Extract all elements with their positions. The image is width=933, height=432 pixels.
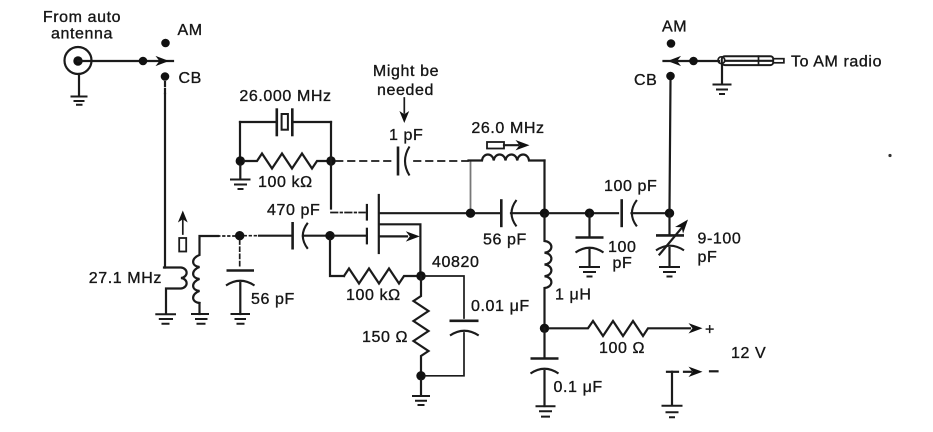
switch S2 wiper arrow (668, 56, 682, 66)
svg-text:150 Ω: 150 Ω (362, 329, 408, 346)
label From auto antenna (43, 9, 121, 43)
svg-text:100: 100 (608, 239, 637, 256)
node crystal/R1 left junction (236, 156, 245, 165)
ground under T1 secondary (191, 314, 209, 324)
svg-text:pF: pF (613, 255, 633, 272)
connector P1 phone plug to AM radio (722, 56, 774, 65)
switch S1 wiper arrow (156, 56, 170, 66)
capacitor 0.1 uF supply bypass (543, 328, 545, 356)
svg-text:AM: AM (178, 22, 203, 39)
T1 tuning slug arrow (182, 220, 184, 234)
svg-text:40820: 40820 (432, 254, 480, 271)
ground under crystal junction (239, 165, 241, 179)
node CB right contact (666, 72, 675, 81)
ground under T1 primary (155, 314, 176, 324)
Q1 gate1 bar (366, 205, 368, 220)
capacitor 100 pF series (620, 199, 623, 227)
ground under plug (721, 65, 723, 84)
wire dashed 1 pF to L1 node (414, 160, 468, 162)
stray dot (888, 154, 891, 157)
Q1 source lead (380, 224, 420, 273)
svg-text:Might be: Might be (373, 63, 439, 80)
svg-text:CB: CB (179, 70, 202, 87)
minus supply terminal (667, 371, 678, 373)
svg-text:0.01 μF: 0.01 μF (471, 298, 530, 315)
svg-text:100 Ω: 100 Ω (599, 340, 645, 357)
svg-text:12 V: 12 V (731, 345, 766, 362)
Q1 substrate lead with arrow (380, 235, 407, 237)
svg-text:470 pF: 470 pF (267, 202, 320, 219)
wire dash-dot to gate1 (331, 212, 365, 214)
arrow down to 1 pF (403, 98, 405, 113)
svg-text:100 pF: 100 pF (604, 178, 657, 195)
resistor R2 100 kOhm bias (344, 269, 417, 284)
capacitor 56 pF input shunt (239, 240, 241, 266)
wire T1 secondary bottom to ground (198, 303, 200, 314)
node gate2 junction (325, 231, 334, 240)
wire output node up to CB right (670, 80, 671, 209)
variable capacitor 9-100 pF (668, 213, 670, 233)
ground under 56 pF input (231, 314, 251, 324)
svg-text:+: + (705, 322, 715, 339)
junction on S1 wiper wire (139, 57, 148, 66)
junction on S2 wiper wire (689, 57, 698, 66)
L1 tuning slug core and arrow (487, 142, 504, 149)
Q1 gate2 lead (334, 235, 366, 237)
node L2 top junction (540, 209, 549, 218)
svg-text:AM: AM (662, 19, 687, 36)
node CB left contact (161, 72, 170, 81)
transformer T1 primary (164, 268, 187, 314)
svg-text:26.000 MHz: 26.000 MHz (239, 88, 331, 105)
node source/bias junction (416, 271, 425, 280)
wire crystal right down to junction and gate1 (330, 122, 332, 209)
svg-text:0.1 μF: 0.1 μF (554, 379, 603, 396)
capacitor 1 pF (might be needed) (397, 147, 400, 176)
svg-text:From auto: From auto (43, 9, 121, 26)
resistor R3 150 Ohm source (414, 276, 429, 372)
node crystal/R1 right junction (326, 156, 335, 165)
wire node to 100 pF cap (548, 212, 618, 214)
Q1 channel (378, 195, 380, 253)
transformer T1 secondary (193, 236, 218, 303)
ground under R3 (420, 380, 422, 396)
node output junction (665, 209, 674, 218)
node source ground junction (416, 371, 425, 380)
capacitor 56 pF output coupling (500, 199, 503, 227)
wire vertical L1 left leg down to drain line (470, 161, 472, 209)
inductor L1 26.0 MHz (469, 155, 545, 161)
svg-text:needed: needed (377, 82, 434, 99)
svg-text:100 kΩ: 100 kΩ (346, 287, 401, 304)
node 100 pF shunt junction (585, 209, 594, 218)
resistor R4 100 Ohm supply (549, 321, 690, 336)
inductor L2 1 uH (545, 215, 552, 326)
wire J1 to switch S1 (78, 60, 173, 62)
svg-text:antenna: antenna (51, 26, 113, 43)
capacitor 100 pF shunt (588, 213, 590, 236)
wire cap to output node (632, 212, 667, 214)
wire cap to node (511, 212, 541, 214)
ground under 100 pF shunt (579, 267, 600, 277)
svg-text:1 μH: 1 μH (555, 287, 592, 304)
ground under minus terminal (662, 406, 683, 418)
crystal Y1 26.000 MHz (240, 121, 276, 123)
Q1 gate2 bar (366, 229, 368, 244)
ground under J1 (78, 74, 80, 96)
connector J1 auto antenna jack (65, 47, 92, 74)
wire dashed node to 1 pF (336, 160, 394, 162)
wire L1 right leg down (543, 161, 545, 210)
wire T1 secondary to node (dotted) (218, 235, 235, 237)
wire crystal left down (239, 122, 241, 158)
wire gate2 node down to R2 (330, 239, 344, 276)
svg-text:To AM radio: To AM radio (791, 54, 882, 71)
svg-text:pF: pF (698, 249, 718, 266)
resistor R1 100 kOhm oscillator (244, 154, 327, 169)
svg-text:56 pF: 56 pF (251, 291, 295, 308)
svg-text:27.1 MHz: 27.1 MHz (89, 270, 162, 287)
wire drain line (380, 212, 499, 214)
svg-text:56 pF: 56 pF (483, 232, 527, 249)
capacitor 470 pF coupling (291, 222, 294, 250)
svg-text:26.0 MHz: 26.0 MHz (471, 120, 544, 137)
svg-text:100 kΩ: 100 kΩ (258, 174, 313, 191)
node AM right contact (667, 39, 676, 48)
T1 tuning slug core (179, 238, 186, 252)
node AM left contact (161, 39, 170, 48)
svg-text:1 pF: 1 pF (389, 127, 423, 144)
node A input junction (235, 231, 244, 240)
wire C470 to gate2 node (303, 235, 327, 237)
wire CB contact down to T1 (164, 82, 166, 94)
svg-text:CB: CB (634, 72, 657, 89)
variable cap arrow (660, 228, 683, 255)
capacitor 0.01 uF bypass (425, 276, 464, 318)
node drain/L1 junction (466, 209, 475, 218)
ground under 0.1 uF (536, 406, 556, 416)
svg-text:9-100: 9-100 (698, 231, 742, 248)
node L2 bottom junction (540, 324, 549, 333)
label minus (710, 370, 718, 372)
wire node A to C470 (dotted then solid) (245, 235, 260, 237)
ground under variable cap (659, 267, 680, 277)
